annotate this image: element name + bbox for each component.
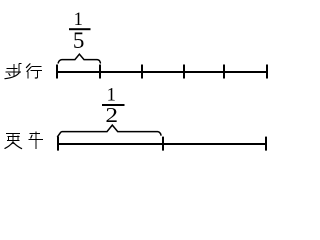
- tick 0: [57, 137, 59, 151]
- svg-text:2: 2: [105, 104, 118, 128]
- tick 4: [223, 65, 225, 79]
- char 行 straight strokes: [27, 72, 29, 79]
- tick 1: [99, 65, 101, 79]
- brace over first half: [58, 125, 161, 137]
- char 步 straight strokes: [13, 64, 15, 71]
- tick 2: [141, 65, 143, 79]
- label 步行 (walking): [6, 63, 43, 78]
- svg-text:5: 5: [73, 28, 85, 53]
- svg-text:1: 1: [74, 10, 83, 30]
- label 乘车 (by bus): [6, 131, 43, 149]
- char 车 diagonal: [31, 135, 32, 138]
- tick middle: [162, 137, 164, 151]
- char 乘 straight strokes: [6, 133, 20, 135]
- tick 3: [183, 65, 185, 79]
- char 行 diagonal strokes: [26, 64, 30, 68]
- svg-text:1: 1: [107, 86, 116, 106]
- wire: main line: [57, 143, 267, 145]
- tick 0: [56, 65, 58, 79]
- tick 5: [266, 65, 268, 79]
- brace over first fifth: [58, 54, 100, 63]
- char 步 diagonal strokes: [9, 74, 10, 76]
- char 车 straight strokes: [30, 133, 41, 135]
- bottom number line (bus): [57, 137, 267, 151]
- top number line (walking): [56, 65, 268, 79]
- char 乘 legs: [5, 142, 13, 148]
- tick end: [265, 137, 267, 151]
- wire: main line: [56, 71, 268, 73]
